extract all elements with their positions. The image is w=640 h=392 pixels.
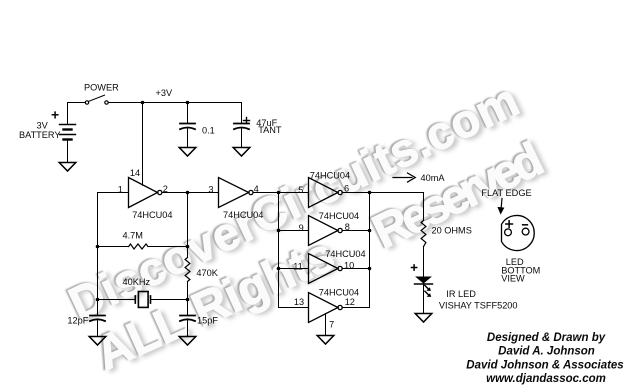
wire battery bottom <box>67 140 69 163</box>
capacitor C4 15pF <box>180 316 195 322</box>
wire 4.7M row right <box>148 246 188 248</box>
svg-text:+: + <box>51 107 59 123</box>
wire rail corner to C2 <box>241 103 243 124</box>
watermark Reserved <box>363 130 556 263</box>
svg-text:VISHAY TSFF5200: VISHAY TSFF5200 <box>439 301 518 311</box>
plus mark C2 <box>244 118 250 124</box>
svg-text:470K: 470K <box>196 268 218 278</box>
wire inverter bank input rail <box>278 193 280 308</box>
svg-text:7: 7 <box>329 320 334 330</box>
svg-text:VIEW: VIEW <box>501 274 525 284</box>
node rail row3 <box>277 267 281 271</box>
svg-text:5: 5 <box>298 185 303 195</box>
LED bottom view body <box>502 215 535 250</box>
svg-text:74HCU04: 74HCU04 <box>132 210 172 220</box>
LED bottom view pin anode <box>505 229 512 236</box>
wire U1B out to input rail <box>253 192 278 194</box>
svg-text:74HCU04: 74HCU04 <box>223 210 263 220</box>
svg-text:Designed & Drawn by: Designed & Drawn by <box>487 332 606 344</box>
svg-text:12: 12 <box>345 297 355 307</box>
ground (C3) <box>89 337 106 346</box>
svg-text:1: 1 <box>118 185 123 195</box>
wire row4 output <box>342 307 369 309</box>
wire rail 470K to crystal row <box>187 282 189 316</box>
svg-text:6: 6 <box>344 184 349 194</box>
wire row2 input <box>279 230 309 232</box>
svg-text:3V: 3V <box>37 121 49 131</box>
wire LED to ground <box>423 284 425 314</box>
arrow flat edge <box>497 199 504 215</box>
capacitor C3 12pF <box>90 316 105 322</box>
wire R3 to LED <box>423 247 425 277</box>
node out row1 <box>368 191 372 195</box>
ground (pin7) <box>317 336 334 345</box>
wire right feedback rail top <box>187 193 189 258</box>
svg-text:74HCU04: 74HCU04 <box>310 170 350 180</box>
wire left feedback rail <box>97 193 99 316</box>
battery BT1 3V <box>60 125 76 140</box>
inverter U1A 74HCU04 <box>129 178 162 208</box>
node out row2 <box>368 229 372 233</box>
svg-text:15pF: 15pF <box>197 316 218 326</box>
svg-text:20 OHMS: 20 OHMS <box>432 226 472 236</box>
wire U1A out to U1B <box>162 192 219 194</box>
watermark ALL Rights <box>86 225 346 384</box>
capacitor C1 0.1 <box>180 124 195 130</box>
svg-text:BATTERY: BATTERY <box>19 130 61 140</box>
svg-text:74HCU04: 74HCU04 <box>319 287 359 297</box>
wire pin7 to ground <box>325 314 327 336</box>
ground (LED) <box>415 314 432 323</box>
wire C4 to ground <box>187 321 189 337</box>
wire C1 to ground <box>187 129 189 148</box>
svg-text:www.djandassoc.com: www.djandassoc.com <box>486 373 606 385</box>
svg-text:40KHz: 40KHz <box>123 277 151 287</box>
svg-text:14: 14 <box>130 168 140 178</box>
switch S1 POWER <box>85 95 108 104</box>
wire +3V rail <box>108 102 241 104</box>
wire output rail <box>369 193 371 308</box>
node out row3 <box>368 267 372 271</box>
wire row4 input <box>279 307 309 309</box>
svg-text:4.7M: 4.7M <box>123 231 143 241</box>
plus mark bottom view <box>506 221 513 228</box>
node U1B output junction <box>277 191 281 195</box>
node rail/pin14 junction <box>141 101 145 105</box>
ground (C2) <box>233 148 250 157</box>
svg-text:74HCU04: 74HCU04 <box>325 249 365 259</box>
resistor R2 470K vertical <box>185 258 190 282</box>
node rail row2 <box>277 229 281 233</box>
wire row3 output <box>342 268 369 270</box>
svg-text:David A. Johnson: David A. Johnson <box>498 346 595 358</box>
inverter U1C 74HCU04 <box>309 178 343 208</box>
svg-text:FLAT EDGE: FLAT EDGE <box>481 188 531 198</box>
node right 4.7M junction <box>186 245 190 249</box>
node rail/C1 junction <box>186 101 190 105</box>
svg-text:2: 2 <box>163 184 168 194</box>
svg-text:+3V: +3V <box>156 88 173 98</box>
svg-text:IR LED: IR LED <box>446 289 476 299</box>
minus mark bottom view <box>523 224 528 226</box>
svg-text:TANT: TANT <box>258 125 282 135</box>
svg-text:8: 8 <box>345 222 350 232</box>
inverter U1F 74HCU04 <box>309 293 343 323</box>
wire row1 input <box>279 192 309 194</box>
svg-text:10: 10 <box>344 261 354 271</box>
svg-text:40mA: 40mA <box>421 173 446 183</box>
node right crystal junction <box>186 298 190 302</box>
svg-text:74HCU04: 74HCU04 <box>319 211 359 221</box>
wire row2 output <box>342 230 369 232</box>
inverter U1D 74HCU04 <box>309 216 343 246</box>
resistor R3 20 OHMS <box>421 221 426 247</box>
watermark DiscoverCircuits.com <box>59 71 530 334</box>
crystal Y1 40KHz <box>135 292 150 308</box>
wire input to U1A <box>98 192 129 194</box>
inverter U1E 74HCU04 <box>309 254 343 284</box>
node left 4.7M junction <box>96 245 100 249</box>
wire battery top to switch <box>68 103 86 125</box>
wire 4.7M row left <box>98 246 129 248</box>
wire to C1 <box>187 103 189 124</box>
wire C3 to ground <box>97 321 99 337</box>
capacitor C2 47uF <box>234 124 249 130</box>
wire to R3 <box>370 193 424 221</box>
wire row1 output <box>342 192 369 194</box>
resistor R1 4.7M <box>129 244 148 249</box>
wire pin14 supply <box>142 103 144 186</box>
arrow 40mA <box>393 173 415 182</box>
node U1A output junction <box>186 191 190 195</box>
wire C2 to ground <box>241 129 243 148</box>
svg-text:4: 4 <box>254 184 259 194</box>
ground (battery) <box>59 163 76 172</box>
LED emission arrows <box>425 285 431 297</box>
credits <box>466 332 623 385</box>
diode D1 IR LED <box>415 277 433 285</box>
svg-text:13: 13 <box>294 297 304 307</box>
ground (C1) <box>179 148 196 157</box>
svg-text:11: 11 <box>293 261 303 271</box>
svg-text:12pF: 12pF <box>67 316 88 326</box>
ground (C4) <box>179 337 196 346</box>
wire row3 input <box>279 268 309 270</box>
svg-text:David Johnson & Associates: David Johnson & Associates <box>466 360 623 372</box>
plus mark LED anode <box>412 265 417 270</box>
svg-text:9: 9 <box>299 223 304 233</box>
wire crystal right <box>151 299 188 301</box>
LED bottom view pin cathode <box>522 228 529 235</box>
inverter U1B 74HCU04 <box>219 178 253 208</box>
svg-text:3: 3 <box>208 185 213 195</box>
svg-text:POWER: POWER <box>84 83 119 93</box>
wire crystal left <box>98 299 136 301</box>
node left crystal junction <box>96 298 100 302</box>
svg-text:0.1: 0.1 <box>202 126 215 136</box>
